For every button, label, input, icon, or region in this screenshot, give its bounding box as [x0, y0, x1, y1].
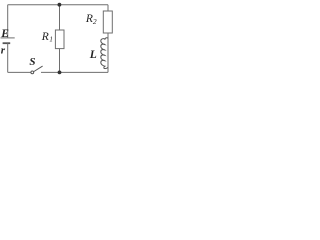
wire top: [8, 4, 108, 6]
svg-text:S: S: [29, 56, 35, 68]
svg-text:R1: R1: [41, 31, 53, 43]
svg-text:r: r: [1, 44, 6, 56]
wire left lower: [7, 43, 9, 72]
battery short plate: [3, 42, 11, 44]
battery E long plate: [1, 37, 15, 39]
svg-text:E: E: [0, 28, 9, 40]
svg-text:L: L: [89, 49, 97, 61]
wire bottom left: [8, 71, 31, 73]
wire right lower: [107, 33, 109, 72]
junction node bottom: [58, 71, 62, 75]
junction node top: [58, 3, 62, 7]
switch S circle: [31, 71, 34, 74]
resistor R1 box: [55, 30, 64, 49]
svg-text:R2: R2: [85, 13, 97, 26]
wire R1 branch lower: [59, 49, 61, 73]
wire right upper: [107, 5, 109, 11]
switch lever: [34, 66, 43, 71]
inductor L coil: [101, 38, 108, 69]
wire R1 branch upper: [59, 5, 61, 30]
wire bottom right: [41, 71, 108, 73]
wire left upper: [7, 5, 9, 38]
resistor R2 box: [103, 11, 112, 33]
